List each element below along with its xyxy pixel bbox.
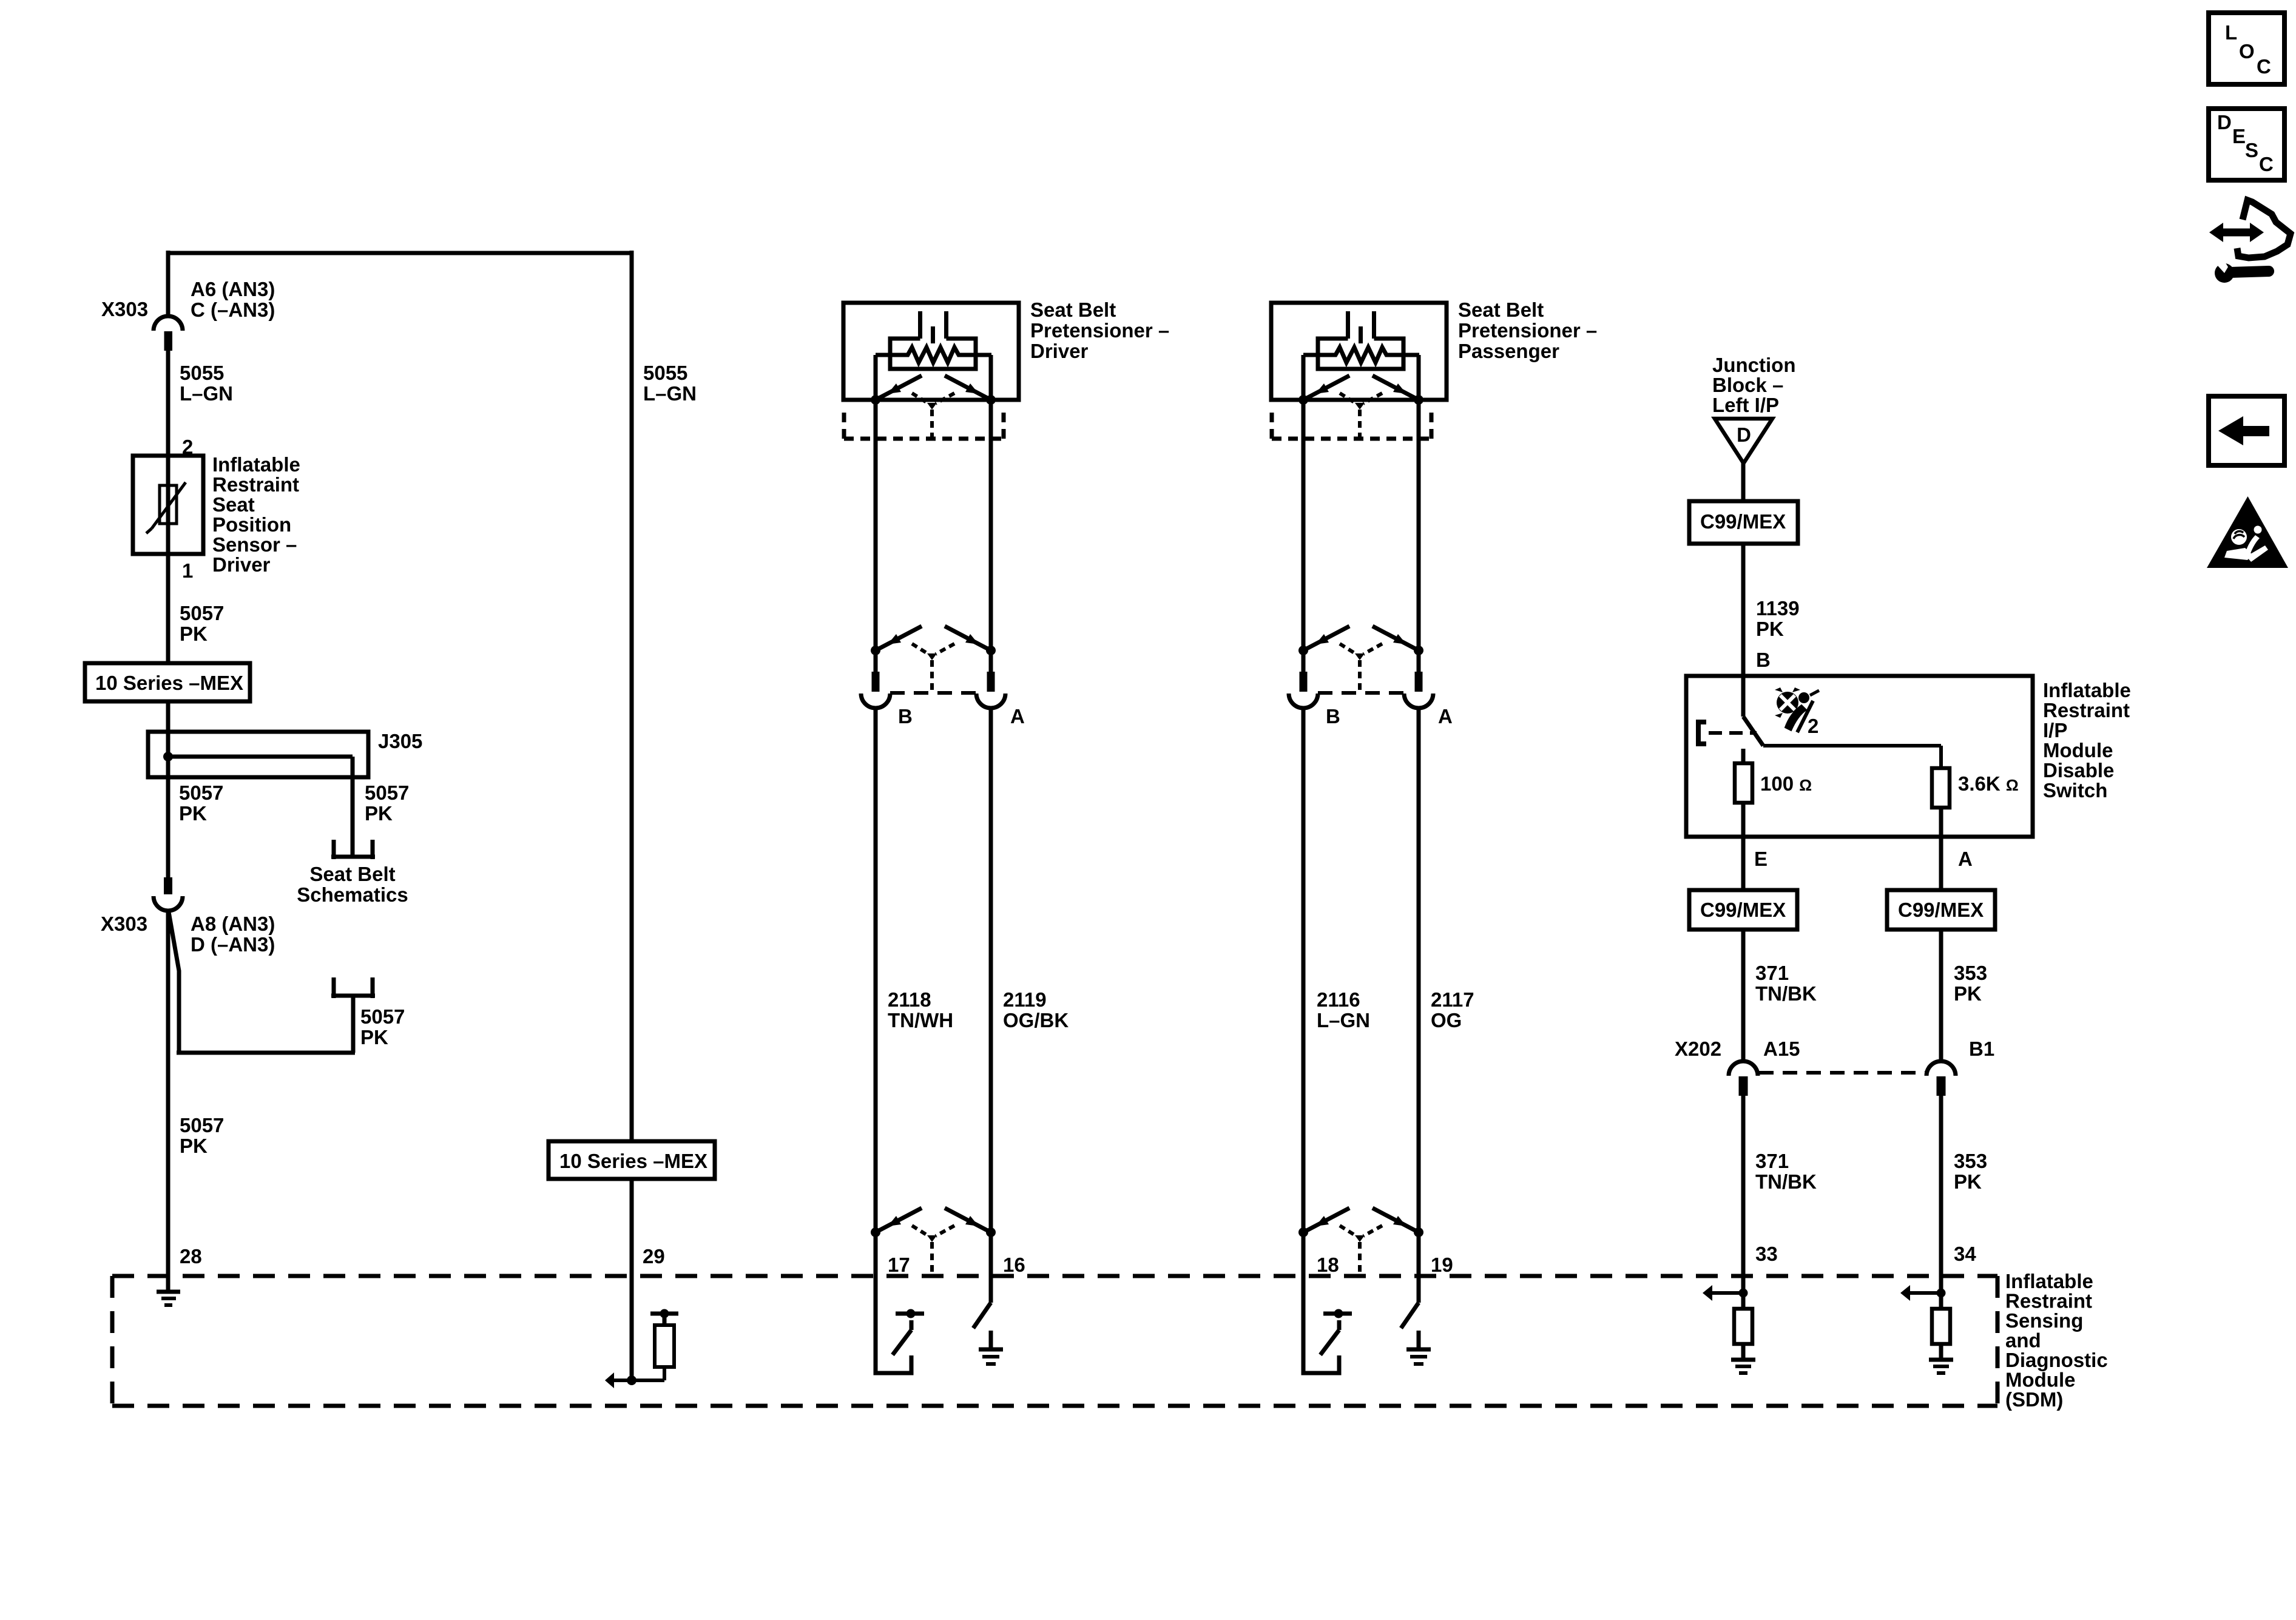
svg-text:B: B [898, 705, 913, 727]
svg-text:TN/WH: TN/WH [888, 1009, 953, 1031]
svg-text:Inflatable: Inflatable [2043, 679, 2131, 701]
svg-text:100 Ω: 100 Ω [1760, 772, 1812, 795]
svg-text:10 Series –MEX: 10 Series –MEX [95, 672, 243, 694]
svg-text:B1: B1 [1969, 1038, 1994, 1060]
svg-text:Pretensioner –: Pretensioner – [1458, 319, 1597, 342]
svg-text:Pretensioner –: Pretensioner – [1030, 319, 1169, 342]
svg-text:Seat: Seat [212, 493, 255, 516]
svg-text:2: 2 [182, 436, 193, 458]
svg-text:28: 28 [180, 1245, 202, 1267]
svg-text:5055: 5055 [180, 362, 224, 384]
svg-text:D (–AN3): D (–AN3) [191, 933, 275, 956]
svg-text:Module: Module [2005, 1369, 2075, 1391]
svg-text:34: 34 [1954, 1243, 1976, 1265]
svg-text:Restraint: Restraint [2005, 1290, 2092, 1312]
svg-text:Seat Belt: Seat Belt [1458, 299, 1544, 321]
svg-text:D: D [2217, 111, 2232, 133]
svg-text:Junction: Junction [1712, 354, 1796, 376]
svg-text:Restraint: Restraint [2043, 699, 2130, 721]
svg-text:TN/BK: TN/BK [1755, 1170, 1817, 1193]
svg-text:PK: PK [1756, 618, 1784, 640]
svg-text:371: 371 [1755, 962, 1789, 984]
svg-text:Diagnostic: Diagnostic [2005, 1349, 2108, 1371]
svg-text:17: 17 [888, 1254, 910, 1276]
svg-text:C: C [2259, 153, 2274, 175]
svg-text:E: E [1754, 848, 1768, 870]
svg-text:PK: PK [1954, 982, 1982, 1005]
svg-text:33: 33 [1755, 1243, 1778, 1265]
svg-text:Seat Belt: Seat Belt [1030, 299, 1116, 321]
svg-text:Passenger: Passenger [1458, 340, 1559, 362]
svg-text:Driver: Driver [212, 553, 271, 576]
svg-text:2116: 2116 [1317, 988, 1360, 1011]
svg-text:16: 16 [1003, 1254, 1025, 1276]
svg-text:Switch: Switch [2043, 779, 2107, 802]
svg-text:29: 29 [643, 1245, 665, 1267]
svg-text:L–GN: L–GN [180, 382, 233, 405]
svg-text:Inflatable: Inflatable [212, 453, 300, 476]
svg-text:X303: X303 [101, 298, 148, 320]
svg-text:PK: PK [180, 1135, 208, 1157]
svg-text:Disable: Disable [2043, 759, 2114, 781]
svg-text:B: B [1756, 649, 1771, 671]
svg-text:D: D [1737, 424, 1751, 446]
svg-text:O: O [2239, 40, 2255, 62]
svg-text:PK: PK [1954, 1170, 1982, 1193]
svg-text:L–GN: L–GN [643, 382, 697, 405]
svg-text:3.6K Ω: 3.6K Ω [1958, 772, 2019, 795]
svg-text:5057: 5057 [179, 781, 223, 804]
svg-text:2118: 2118 [888, 988, 931, 1011]
svg-text:A8 (AN3): A8 (AN3) [191, 913, 275, 935]
svg-text:Position: Position [212, 513, 291, 536]
svg-text:A: A [1438, 705, 1453, 727]
svg-text:C99/MEX: C99/MEX [1700, 899, 1786, 921]
svg-text:5055: 5055 [643, 362, 687, 384]
svg-text:PK: PK [180, 623, 208, 645]
svg-text:X202: X202 [1675, 1038, 1721, 1060]
svg-text:A6 (AN3): A6 (AN3) [191, 278, 275, 300]
svg-text:PK: PK [179, 802, 207, 825]
svg-text:Inflatable: Inflatable [2005, 1270, 2093, 1292]
svg-text:X303: X303 [101, 913, 147, 935]
svg-text:C99/MEX: C99/MEX [1898, 899, 1984, 921]
svg-text:Driver: Driver [1030, 340, 1089, 362]
svg-text:5057: 5057 [360, 1005, 405, 1028]
svg-text:OG: OG [1431, 1009, 1462, 1031]
svg-text:10 Series –MEX: 10 Series –MEX [559, 1150, 707, 1172]
svg-text:S: S [2245, 139, 2258, 161]
svg-text:B: B [1326, 705, 1340, 727]
svg-text:1: 1 [182, 559, 193, 582]
svg-text:C (–AN3): C (–AN3) [191, 299, 275, 321]
svg-text:Sensor –: Sensor – [212, 533, 297, 556]
svg-text:C99/MEX: C99/MEX [1700, 510, 1786, 533]
svg-text:(SDM): (SDM) [2005, 1388, 2063, 1411]
svg-text:Block –: Block – [1712, 374, 1783, 396]
svg-text:2: 2 [1808, 715, 1818, 737]
svg-text:J305: J305 [378, 730, 422, 752]
svg-text:2119: 2119 [1003, 988, 1047, 1011]
svg-text:PK: PK [360, 1026, 388, 1048]
svg-text:Seat Belt: Seat Belt [309, 863, 395, 885]
svg-text:2117: 2117 [1431, 988, 1474, 1011]
svg-text:5057: 5057 [365, 781, 409, 804]
svg-text:L–GN: L–GN [1317, 1009, 1370, 1031]
svg-text:19: 19 [1431, 1254, 1453, 1276]
svg-text:C: C [2257, 55, 2271, 78]
svg-text:371: 371 [1755, 1150, 1789, 1172]
svg-text:L: L [2225, 21, 2237, 44]
svg-text:A: A [1958, 848, 1973, 870]
svg-text:Module: Module [2043, 739, 2113, 761]
svg-text:TN/BK: TN/BK [1755, 982, 1817, 1005]
svg-text:Schematics: Schematics [297, 883, 408, 906]
svg-text:PK: PK [365, 802, 393, 825]
svg-text:Restraint: Restraint [212, 473, 299, 496]
svg-text:Sensing: Sensing [2005, 1309, 2083, 1332]
svg-text:Left I/P: Left I/P [1712, 394, 1779, 416]
svg-text:A15: A15 [1763, 1038, 1800, 1060]
svg-text:353: 353 [1954, 1150, 1987, 1172]
svg-text:A: A [1010, 705, 1025, 727]
svg-text:OG/BK: OG/BK [1003, 1009, 1069, 1031]
svg-text:1139: 1139 [1756, 597, 1800, 619]
svg-text:I/P: I/P [2043, 719, 2067, 741]
svg-text:and: and [2005, 1329, 2041, 1352]
svg-text:5057: 5057 [180, 602, 224, 624]
svg-text:18: 18 [1317, 1254, 1339, 1276]
svg-text:5057: 5057 [180, 1114, 224, 1136]
svg-text:353: 353 [1954, 962, 1987, 984]
svg-text:E: E [2232, 125, 2246, 147]
